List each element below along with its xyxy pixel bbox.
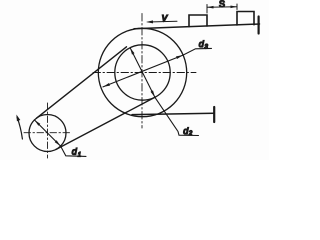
svg-text:1: 1 [78,153,81,159]
conveyor top end bar [258,17,260,34]
svg-text:2: 2 [188,131,193,137]
centerline vertical, small pulley [47,103,49,158]
S dimension extension line left [206,5,208,14]
d1 leader bend [61,146,86,156]
belt upper run [37,47,127,118]
d2 leader bend [155,97,199,135]
d2 arrow upper-left [130,48,134,55]
d2 dimension line [130,48,155,98]
d3 dimension line [103,55,183,87]
S dimension line [207,6,237,9]
velocity arrowhead [146,20,153,23]
d1 arrow upper-left [34,120,40,126]
d1 arrow lower-right [55,140,61,146]
svg-text:S: S [219,0,225,9]
svg-text:v: v [162,12,169,24]
drum outer circle d3 [98,28,186,116]
package block right [237,12,254,26]
package block left [189,15,207,27]
S dimension arrow left [207,6,214,9]
d2 arrow lower-right [151,90,155,97]
centerline horizontal, drum [93,72,196,74]
S dimension arrow right [231,6,238,9]
small pulley circle d1 [29,115,66,152]
d1 dimension line [34,120,60,146]
d3 leader bend [183,48,212,55]
rotation arrowhead [16,115,20,122]
d3 arrow upper-right [176,55,183,59]
centerline horizontal, small pulley [24,132,70,134]
velocity arrow v [148,20,177,23]
svg-text:3: 3 [205,44,209,50]
centerline vertical, drum [141,14,143,129]
rotation direction arrow [17,117,22,139]
conveyor bottom line [132,113,214,114]
conveyor bottom end bar [213,107,215,122]
conveyor top line [134,24,260,29]
pulley inner circle d2 [115,45,170,100]
S dimension extension line right [236,4,238,10]
d3 arrow lower-left [103,83,110,87]
belt lower run [56,97,155,149]
